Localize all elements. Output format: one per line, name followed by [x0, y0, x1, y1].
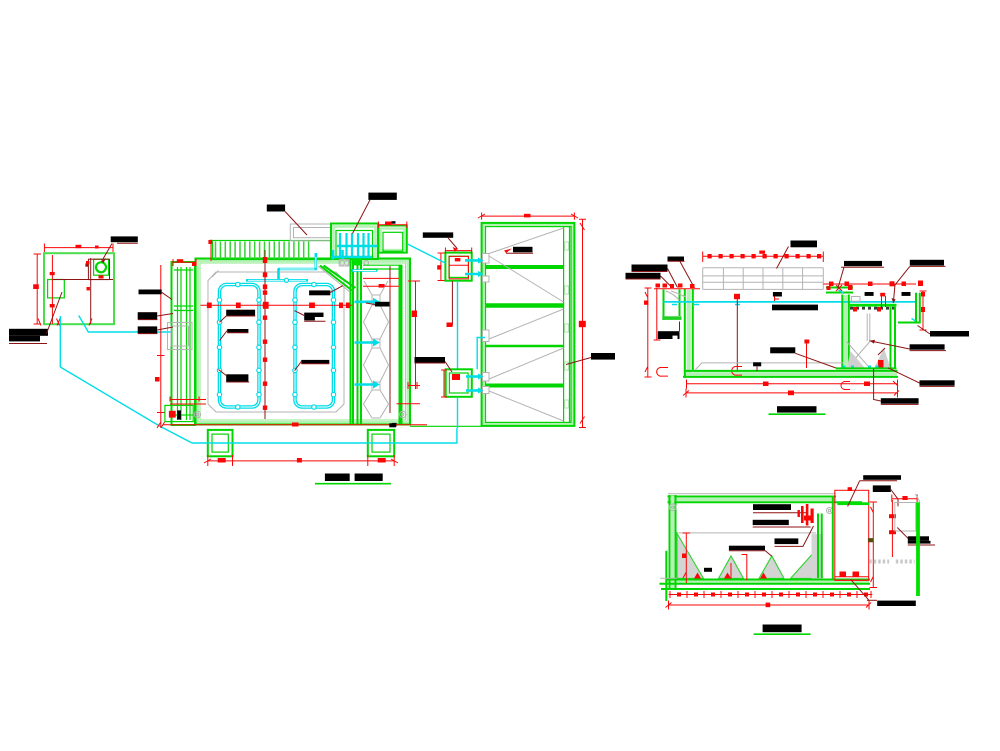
red block on square: [385, 222, 392, 226]
top dim upper block: [759, 251, 765, 254]
divider slab cyan dash: [839, 290, 845, 294]
column top strip green: [363, 265, 402, 269]
gray fan diagonal bay1-2: [489, 256, 564, 302]
top label ladder leader: [285, 212, 307, 236]
mixing box light core: [334, 227, 376, 258]
bottom box red block: [452, 374, 460, 380]
right dim block: [579, 321, 586, 327]
red valve cluster: [798, 504, 814, 526]
bottom box label: [415, 357, 446, 363]
right chamber inner wall: [891, 307, 896, 369]
column right red bracket: [408, 382, 420, 389]
green solid square at channel head: [353, 259, 361, 266]
corner brace green diagonals: [320, 266, 356, 291]
lane1 joints: [217, 282, 261, 409]
red vertical mid: [742, 555, 748, 581]
left dim ticks: [155, 377, 160, 382]
top label mixing: [368, 193, 396, 200]
top dim tick blocks: [708, 254, 822, 258]
bottom dim block: [292, 423, 299, 427]
corner box red block: [169, 411, 176, 418]
diamond 1: [364, 305, 389, 339]
label L2: [753, 520, 789, 525]
cyan stubs below mixing box: [333, 250, 343, 260]
label L2 leader: [753, 526, 811, 528]
plan title underline: [315, 483, 391, 485]
divider wall lines: [351, 259, 354, 424]
lane2 label b leader: [295, 311, 326, 322]
dim left line: [34, 254, 42, 324]
lane2 label c leader: [295, 362, 330, 371]
right red marks outlet: [921, 292, 925, 297]
column label leader: [366, 303, 375, 305]
right dim vertical: [579, 219, 586, 427]
label L4: [881, 398, 919, 404]
floor light core: [684, 372, 897, 376]
diamond 3: [364, 390, 389, 418]
right chamber gray X: [847, 342, 871, 369]
sludge column right: [812, 534, 824, 579]
sludge speckle right: [874, 348, 891, 368]
right beam circle: [827, 508, 833, 514]
label M1 small: [865, 292, 874, 296]
top box red mid line: [449, 264, 468, 266]
cyan elbow to plan: [79, 316, 172, 333]
sludge red marks: [878, 360, 884, 368]
label G notch: [673, 336, 678, 339]
label I arrowhead: [870, 340, 876, 344]
gray fan diagonal bay4: [489, 348, 564, 379]
weir red diagonal: [897, 528, 908, 539]
lane1 label c leader: [219, 370, 250, 383]
label D: [626, 273, 661, 279]
cyan elbow from tank: [477, 338, 485, 370]
left wall red mark: [192, 262, 196, 266]
top box red box: [449, 256, 468, 278]
plan title block 1: [325, 474, 350, 482]
inlet chamber bottom: [662, 316, 681, 320]
square light core: [381, 229, 405, 251]
bold green vertical right: [916, 502, 920, 596]
water cyan dashes: [672, 304, 740, 306]
cyan arrow 2: [355, 341, 374, 344]
main tank left wall outer: [684, 289, 686, 377]
red bracket over square: [378, 222, 406, 229]
gray ports on left wall: [483, 254, 490, 394]
column black label: [375, 302, 389, 307]
top-right green square inner: [383, 232, 403, 251]
leader from label to gate: [47, 292, 63, 334]
label G leader: [679, 322, 681, 332]
label F arrowhead: [892, 298, 896, 303]
ladder left red tick: [210, 240, 212, 262]
weir gray diagonal: [916, 494, 921, 502]
cyan arrow 3: [355, 383, 374, 386]
cyan pipe bar over column: [352, 269, 378, 272]
red block left floor: [804, 340, 809, 344]
cyan run to left: [278, 268, 317, 271]
column red vertical: [389, 266, 391, 413]
corner circle right: [400, 411, 406, 417]
bay1 red arrow: [504, 249, 512, 254]
top-left red bracket: [173, 259, 196, 266]
center red C mark: [732, 366, 742, 375]
railing gray horizontals: [703, 268, 824, 290]
black bar on waterline left of divider: [772, 305, 818, 311]
weir label row1: [908, 536, 929, 541]
hopper T3: [759, 556, 784, 579]
inner wall line: [486, 227, 572, 423]
outer wall light core: [198, 261, 408, 423]
top beam gray line: [668, 493, 836, 495]
divider light core: [844, 295, 848, 368]
dim tick marks: [670, 591, 871, 598]
outlet weir red block: [902, 496, 907, 500]
right chamber green top bar: [837, 502, 869, 505]
cyan grid mid band: [337, 245, 380, 248]
left extension wall: [665, 551, 667, 601]
lower dim blocks: [218, 458, 386, 463]
diamond chain funnel top: [364, 281, 388, 305]
leader 1: [162, 292, 172, 299]
bottom diagonal leader: [851, 579, 870, 600]
black dash small: [704, 568, 712, 572]
section title underline: [769, 413, 826, 415]
right top red line: [823, 283, 916, 285]
inlet red blocks: [656, 284, 695, 289]
section 2-2 title: [763, 625, 802, 633]
bottom black dash: [389, 423, 396, 427]
red C elevation mark: [657, 367, 668, 376]
leader 3: [138, 327, 173, 334]
lane1 label a: [226, 310, 255, 316]
red vertical at left floor: [806, 344, 808, 369]
cyan drop pipe: [59, 316, 61, 367]
right chamber floor: [836, 367, 897, 369]
top box red block: [455, 258, 461, 261]
left dim vertical 1: [645, 288, 652, 377]
label L4b leader: [765, 551, 772, 557]
outlet cyan dash: [912, 319, 916, 322]
inner wall line: [200, 263, 406, 420]
red marks at T bases: [694, 573, 701, 579]
red+black mark mid: [880, 293, 885, 297]
effluent trough green bar: [849, 304, 897, 307]
gray circles pair: [340, 261, 345, 266]
bottom dim line ticks: [669, 594, 873, 596]
label C leader: [632, 269, 678, 288]
right side red dim block: [412, 311, 418, 318]
red tick on cyan: [447, 323, 453, 328]
dim inner vertical: [51, 255, 53, 324]
divider bar 2: [486, 303, 564, 307]
bay1 label underline: [506, 252, 533, 254]
divider slab red marks: [827, 286, 831, 290]
label E underline: [841, 266, 884, 268]
top dim block: [524, 214, 531, 218]
dim left value block: [33, 284, 39, 289]
bottom dim line 1: [687, 380, 899, 389]
cyan long diagonal to bottom pipe: [60, 367, 192, 443]
label I underline: [910, 350, 946, 352]
divider wall: [842, 295, 849, 370]
mixing box inner: [336, 231, 373, 259]
corner brace gray: [318, 266, 350, 292]
outer wall: [196, 259, 411, 425]
arrowhead: [102, 258, 107, 263]
column red block: [379, 284, 385, 288]
right mid label: [591, 353, 615, 360]
bottom dim line 2: [683, 389, 899, 398]
top dim line: [703, 252, 824, 263]
lane2 label a: [309, 290, 330, 295]
centerline red vertical: [264, 250, 266, 419]
weir red marks: [853, 307, 857, 312]
outlet weir red top: [892, 495, 917, 503]
cyan stub top1: [465, 259, 482, 262]
diamond 2: [364, 348, 389, 382]
red square on top edge: [848, 487, 852, 491]
label L3: [920, 380, 955, 385]
right dim vertical: [920, 291, 927, 330]
inlet chamber left wall: [663, 290, 665, 321]
floor light core: [666, 580, 869, 583]
column bottom black dash: [392, 423, 397, 427]
top box inner green: [449, 256, 468, 277]
label bottom-left row2: [9, 336, 40, 342]
label F leader: [893, 266, 910, 303]
label L4b: [729, 546, 765, 551]
label L3b leader: [775, 526, 814, 546]
bottom box: [446, 369, 472, 397]
inlet chamber right wall: [679, 290, 681, 317]
lane1 loop pipe: [220, 285, 260, 408]
gray circle pair box: [339, 260, 349, 266]
water line cyan: [664, 301, 917, 303]
top beam green lines: [668, 496, 837, 498]
left wall light core: [687, 290, 691, 374]
leader arrowhead red: [453, 247, 458, 252]
bottom dim line 2: [666, 601, 872, 610]
inlet channel ties: [174, 270, 193, 415]
lane1 label b: [227, 329, 248, 333]
label H: [770, 347, 795, 353]
red cross horizontal: [52, 279, 113, 281]
inlet channel inner lines: [178, 267, 191, 420]
strip notches: [565, 242, 569, 408]
cyan below bottom box: [457, 397, 459, 428]
weir red squares: [889, 514, 896, 518]
pump square wall: [94, 259, 109, 275]
left wall light core: [671, 496, 674, 590]
right outlet bottom: [898, 322, 920, 324]
red dot: [448, 323, 451, 326]
dark block left of pump: [85, 263, 88, 266]
manifold joint circle: [284, 278, 288, 282]
lane1 label c: [226, 374, 248, 382]
main tank left wall inner: [692, 289, 694, 371]
floor green line inner: [684, 370, 898, 372]
gray interior outline chamfered: [208, 272, 344, 412]
top box label leader: [448, 238, 458, 249]
top label ladder: [267, 205, 285, 212]
gray circle right: [364, 261, 369, 266]
right top red blocks: [829, 281, 923, 287]
top box label: [423, 232, 453, 237]
label L4 leader: [874, 369, 881, 402]
cyan feed drop from mixing box: [314, 253, 317, 270]
lane2 label c: [301, 360, 329, 364]
inlet channel outer: [172, 262, 196, 425]
label G: [658, 331, 680, 339]
dim tick blocks: [677, 593, 868, 597]
top label mixing leader: [353, 200, 371, 234]
cyan drop to manifold: [277, 269, 280, 281]
gray fan diagonal bay5: [489, 391, 564, 421]
divider bar 4: [486, 384, 564, 388]
inlet red top line: [654, 288, 700, 290]
bottom dim 2 block: [766, 603, 771, 608]
corner circle left: [194, 411, 200, 417]
dim top line: [44, 244, 113, 253]
red dim inside left: [683, 533, 691, 583]
pump circle: [96, 262, 106, 272]
lane2 loop pipe: [295, 285, 334, 408]
right column wall lines: [400, 265, 402, 424]
label I leader: [870, 341, 910, 349]
scum pipe red verticals: [882, 296, 886, 307]
cyan grid bottom band: [331, 256, 372, 259]
main floor gray slope: [696, 363, 844, 370]
label L1: [753, 504, 791, 510]
centerline tick blocks: [263, 257, 267, 410]
label D leader: [626, 276, 672, 287]
inlet gray box: [168, 323, 193, 350]
floor dash leader: [756, 366, 758, 371]
label I: [910, 344, 945, 349]
corner box black dash: [177, 410, 181, 419]
top-right green square outer: [378, 226, 406, 253]
label L4 underline: [881, 403, 919, 405]
left wall: [670, 495, 676, 590]
label F underline: [910, 265, 946, 267]
floor green lines: [666, 579, 870, 581]
hopper T1: [677, 534, 704, 579]
gray bridge outer: [290, 224, 331, 241]
bottom dim 2 block: [788, 391, 794, 396]
ladder strip frame: [213, 241, 332, 260]
gray fan diagonal bay3: [489, 309, 564, 339]
cyan stub bottom2: [466, 389, 482, 392]
leader 2: [138, 314, 173, 320]
floor small black dash: [753, 362, 761, 366]
label L3b: [775, 538, 799, 544]
red dim block: [682, 554, 687, 559]
left dim vertical: [157, 265, 165, 428]
pump square right inner: [372, 434, 390, 452]
pump square left: [208, 430, 233, 456]
gray bridge inner: [294, 228, 332, 238]
left dim block: [644, 301, 648, 305]
weir label row2: [908, 541, 931, 544]
label top1 leader: [848, 481, 860, 507]
hopper T4: [791, 550, 817, 579]
label K: [930, 331, 969, 337]
gray center pipe: [867, 314, 870, 342]
bottom box inner: [449, 373, 468, 393]
floor gray dash: [660, 577, 677, 579]
leader foot line: [9, 343, 47, 345]
right chamber red box: [835, 490, 869, 580]
label A top: [791, 241, 818, 248]
label L4b underline: [729, 550, 765, 552]
label E leader: [838, 267, 844, 288]
center red block: [734, 294, 740, 299]
left labels: label 1: [139, 290, 162, 295]
top box left dim: [438, 253, 445, 281]
top box left dim block: [437, 265, 441, 269]
label top-right: [111, 236, 138, 242]
black dash on square: [392, 221, 396, 224]
hopper T2: [719, 556, 744, 579]
top box dim bracket: [445, 248, 471, 254]
label top1: [863, 475, 901, 480]
bottom cyan pipe run: [192, 428, 457, 443]
left dim vertical 2: [654, 288, 661, 340]
divider bar 1: [486, 265, 564, 269]
lane2 loop inner white: [295, 285, 334, 408]
ladder bars: [216, 242, 309, 260]
red ticks small: [50, 272, 55, 275]
red vertical T2: [730, 563, 732, 579]
left wall circle: [669, 504, 676, 511]
bottom dim 1 blocks: [763, 382, 769, 387]
pump square right: [368, 430, 394, 456]
red tick under dash: [774, 297, 779, 302]
cyan grid verticals: [340, 233, 369, 258]
label A leader: [777, 247, 789, 269]
lane2 label b row2: [304, 317, 315, 320]
lane2 label a leader: [330, 286, 343, 293]
label M2 small: [902, 292, 911, 296]
red frame around pump: [88, 259, 109, 279]
red dim right of chamber: [870, 502, 878, 588]
divider top slab: [826, 288, 853, 293]
neck 2: [372, 382, 380, 390]
divider bar 3: [486, 345, 564, 348]
outlet weir red vertical: [891, 500, 893, 557]
cyan stub top2: [465, 273, 482, 276]
speckle bands: [869, 560, 914, 564]
red cross vertical: [90, 258, 92, 324]
label L3 leader: [888, 368, 920, 383]
column red horizontal top: [363, 283, 399, 290]
gray fan diagonal bay1: [489, 228, 564, 254]
right side red dim vertical: [408, 281, 420, 389]
top box (distribution): [445, 253, 471, 281]
sludge speckle left: [847, 351, 865, 368]
bottom right label: [877, 601, 916, 606]
cyan manifold: [246, 279, 308, 282]
top dim line: [478, 213, 578, 220]
weir gray box: [895, 503, 916, 532]
bottom dim arrows: [38, 319, 92, 326]
label bottom-left row1: [9, 329, 48, 336]
bottom box label leader: [415, 362, 453, 373]
mixing box outer: [331, 224, 378, 260]
label 3: [138, 326, 158, 333]
label top1 underline: [860, 480, 898, 482]
